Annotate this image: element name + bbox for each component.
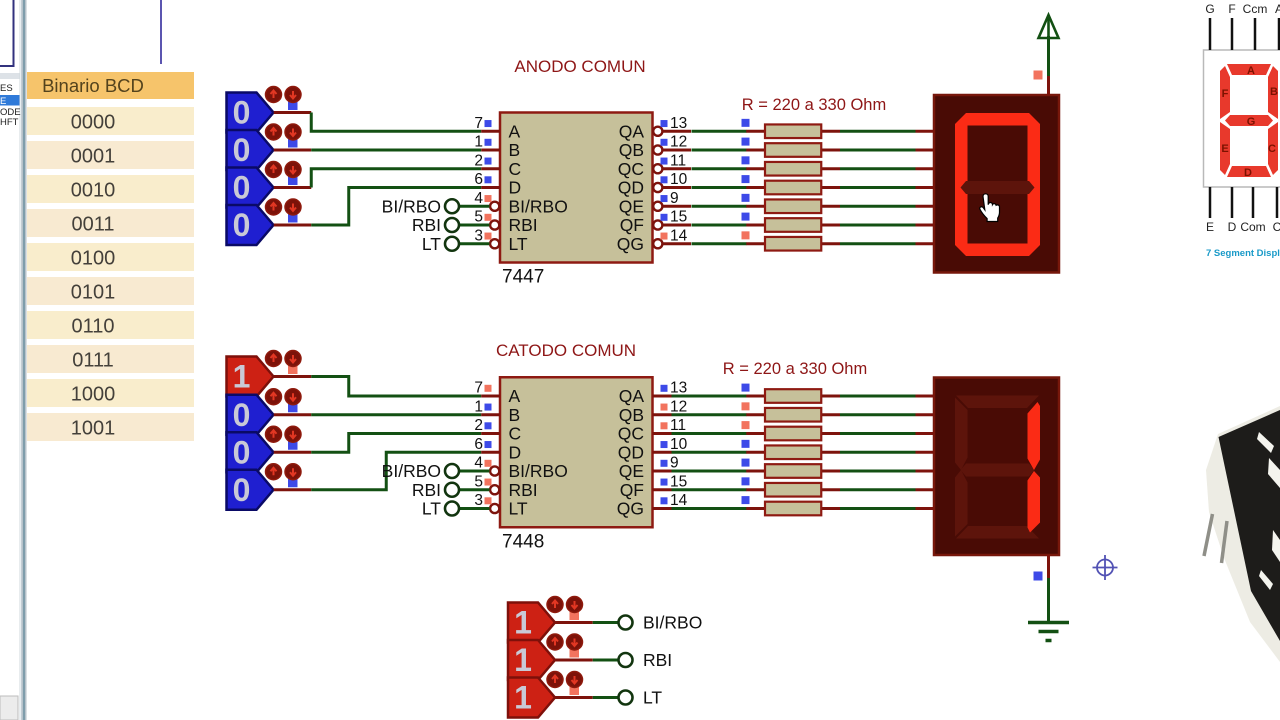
DS2 segment c (lit) [1028,471,1041,533]
svg-text:BI/RBO: BI/RBO [382,461,441,481]
wire U2 QF to resistor R13 [672,488,747,491]
7-segment display DS2 body [934,378,1059,556]
wire R10 to display DS2 [840,432,916,435]
svg-text:1: 1 [474,398,483,415]
logic state input bit 3 circuit2 (value 1) [227,357,274,397]
svg-text:QD: QD [618,178,644,198]
splitter bar vertical [20,0,27,720]
level indicator R8 input [742,384,750,392]
terminal node RBI (U1) [445,218,459,232]
level indicator R10 input [742,421,750,429]
svg-text:RBI: RBI [643,650,672,670]
svg-text:11: 11 [670,152,686,169]
svg-text:0010: 0010 [71,180,116,202]
wire LS8 to pin D (7448) [274,452,482,490]
terminal node LT (U2) [445,502,459,516]
U1 left pin 5 (RBI) [474,209,537,236]
wire R13 to display DS2 [840,488,916,491]
svg-text:QC: QC [618,424,644,444]
pinout mini display segment D [1227,166,1271,179]
display DS1 pin stub f [916,224,935,227]
U2 left pin 7 (A) [474,380,520,407]
svg-text:5: 5 [474,209,483,226]
svg-text:0101: 0101 [71,282,116,304]
svg-text:0: 0 [233,472,251,508]
svg-text:E: E [0,96,6,107]
U1 right pin 15 (QF) [620,209,691,236]
wire terminal LT to U2 [459,507,490,510]
svg-text:LT: LT [509,234,528,254]
svg-text:QB: QB [619,405,644,425]
svg-text:E: E [1206,220,1214,234]
svg-text:A: A [509,121,521,141]
svg-text:0100: 0100 [71,248,116,270]
svg-text:QD: QD [618,442,644,462]
pinout top pin G [1205,2,1214,50]
svg-text:Ccm: Ccm [1243,2,1268,16]
svg-text:QE: QE [619,196,644,216]
wire U1 QB to resistor R2 [692,149,747,152]
toggle buttons of input bit 0 circuit1 [266,199,302,223]
level indicator R4 input [742,175,750,183]
svg-text:ANODO COMUN: ANODO COMUN [514,57,645,76]
U1 left pin 7 (A) [474,115,520,142]
IC U1 (7447) body [500,113,653,263]
svg-text:1: 1 [514,680,532,716]
level indicator cathode net [1034,572,1043,581]
terminal node RBI (U2) [445,483,459,497]
IC U2 (7448) body [500,377,653,527]
U1 right pin 14 (QG) [617,227,691,254]
svg-text:6: 6 [474,436,483,453]
display DS1 pin stub e [916,205,935,208]
resistor R9 [746,408,840,422]
DS1 segment g (off) [961,181,1035,194]
resistor R14 [746,502,840,516]
svg-text:D: D [509,442,522,462]
level indicator R13 input [742,477,750,485]
display DS2 pin stub f [916,488,935,491]
svg-text:2: 2 [474,152,483,169]
wire U1 QA to resistor R1 [692,130,747,133]
photo: white segments on face [1257,432,1280,590]
photo: display component body (plastic) [1206,406,1280,662]
terminal node LT (U1) [445,237,459,251]
svg-text:QG: QG [617,499,644,519]
wire U2 QD to resistor R11 [672,451,747,454]
logic state input bit 2 circuit2 (value 0) [227,395,274,435]
svg-text:D: D [509,178,522,198]
svg-text:LT: LT [509,499,528,519]
resistor R12 [746,464,840,478]
svg-text:RBI: RBI [509,215,538,235]
toggle buttons of input bit 1 circuit2 [266,426,302,450]
resistor R13 [746,483,840,497]
display DS1 pin stub c [916,167,935,170]
svg-text:1: 1 [514,605,532,641]
svg-text:12: 12 [670,398,687,415]
svg-text:D: D [1244,167,1252,179]
pinout diagram white panel [1204,50,1280,187]
level indicator R2 input [742,138,750,146]
level indicator R1 input [742,119,750,127]
resistor R2 [746,143,840,157]
pinout bottom pin D [1228,187,1237,234]
wire control LS to terminal RBI [555,659,618,662]
svg-text:3: 3 [474,227,483,244]
U2 right pin 12 (QB) [619,398,688,425]
svg-text:0: 0 [233,397,251,433]
table row 1001 [27,413,194,441]
resistor R4 [746,181,840,195]
U1 right pin 12 (QB) [619,134,691,161]
gray box bottom-left corner [0,696,18,720]
toggle buttons of input bit 3 circuit2 [266,351,302,375]
DS2 segment f (off) [955,398,968,471]
svg-text:12: 12 [670,134,687,151]
U2 left pin 1 (B) [474,398,520,425]
terminal node LT (bottom) [619,691,633,705]
wire R14 to display DS2 [840,507,916,510]
wire U2 QE to resistor R12 [672,470,747,473]
window frame edge second vertical [160,0,162,64]
svg-text:G: G [1205,2,1214,16]
svg-text:0: 0 [233,132,251,168]
mouse cursor (hand) [980,194,1000,222]
pinout mini display segment F [1220,66,1230,119]
U2 right pin 15 (QF) [620,473,688,500]
wire U1 QE to resistor R5 [692,205,747,208]
U1 right pin 10 (QD) [618,171,691,198]
logic state input bit 0 circuit2 (value 0) [227,470,274,510]
svg-text:QA: QA [619,121,645,141]
origin crosshair marker [1093,555,1118,580]
wire control LS to terminal BI/RBO [555,621,618,624]
wire terminal RBI to U1 [459,224,490,227]
U1 left pin 2 (C) [474,152,521,179]
display DS1 pin stub g [916,242,935,245]
svg-text:10: 10 [670,171,688,188]
logic state control BI/RBO (value 1) [508,603,555,643]
svg-text:7: 7 [474,380,483,397]
terminal node BI/RBO (U2) [445,464,459,478]
U2 left pin 6 (D) [474,436,521,463]
svg-text:LT: LT [643,688,662,708]
resistor R3 [746,162,840,176]
pinout mini display segment A [1227,64,1271,77]
U2 left pin 3 (LT) [474,492,528,519]
wire U2 QC to resistor R10 [672,432,747,435]
svg-text:0: 0 [233,207,251,243]
logic state control LT (value 1) [508,678,555,718]
wire U2 QA to resistor R8 [672,395,747,398]
wire U1 QG to resistor R7 [692,242,747,245]
svg-text:BI/RBO: BI/RBO [382,196,441,216]
U2 left pin 5 (RBI) [474,473,537,500]
wire LS4 to pin D (7447) [274,188,482,226]
wire R8 to display DS2 [840,395,916,398]
DS2 segment b (lit) [1028,402,1041,470]
U1 right pin 13 (QA) [619,115,691,142]
svg-text:C: C [1268,143,1276,155]
wire terminal BI/RBO to U2 [459,470,490,473]
svg-text:A: A [1247,65,1255,77]
wire R9 to display DS2 [840,413,916,416]
ground symbol [1028,623,1069,641]
logic state input bit 3 circuit1 (value 0) [227,93,274,133]
svg-text:1: 1 [233,359,251,395]
svg-text:F: F [1222,88,1229,100]
svg-text:QB: QB [619,140,644,160]
svg-text:9: 9 [670,455,679,472]
table Binario BCD header [27,72,194,99]
svg-text:13: 13 [670,115,687,132]
level indicator R6 input [742,213,750,221]
svg-text:0111: 0111 [72,350,114,372]
svg-text:0000: 0000 [71,112,116,134]
resistor R5 [746,199,840,213]
svg-text:6: 6 [474,171,483,188]
terminal node BI/RBO (bottom) [619,616,633,630]
U1 right pin 11 (QC) [618,152,691,179]
svg-text:Com: Com [1240,220,1265,234]
wire terminal LT to U1 [459,242,490,245]
svg-text:A: A [509,386,521,406]
svg-text:0110: 0110 [71,316,114,338]
svg-text:0001: 0001 [71,146,116,168]
svg-text:C: C [1273,220,1280,234]
level indicator R14 input [742,496,750,504]
svg-text:0: 0 [233,95,251,131]
svg-text:0: 0 [233,170,251,206]
svg-text:1: 1 [514,642,532,678]
svg-text:1001: 1001 [71,418,116,440]
U2 left pin 4 (BI/RBO) [474,455,567,482]
table row 0010 [27,175,194,203]
small list box top-left [0,73,21,130]
svg-text:QG: QG [617,234,644,254]
terminal node BI/RBO (U1) [445,199,459,213]
wire R4 to display DS1 [840,186,916,189]
svg-text:3: 3 [474,492,483,509]
svg-text:QF: QF [620,480,644,500]
DS1 lit segments a,b,c,d,e,f (digit 0) [955,113,1040,256]
wire LS6 to pin B (7448) [274,413,482,416]
svg-text:RBI: RBI [412,215,441,235]
svg-text:B: B [1270,86,1278,98]
DS2 segment a (off) [956,396,1039,409]
display DS1 pin stub d [916,186,935,189]
svg-text:HFT: HFT [0,117,19,128]
resistor R7 [746,237,840,251]
photo: display black face [1219,410,1280,641]
table row 0111 [27,345,194,373]
pinout mini display segment E [1220,122,1230,175]
7-segment display DS1 body [934,95,1059,273]
U2 left pin 2 (C) [474,417,521,444]
table row 0000 [27,107,194,135]
toggle buttons of input bit 3 circuit1 [266,87,302,111]
table row 0110 [27,311,194,339]
photo: component pin 2 [1222,521,1228,563]
wire R5 to display DS1 [840,205,916,208]
svg-text:5: 5 [474,473,483,490]
svg-text:4: 4 [474,455,483,472]
svg-text:0: 0 [233,434,251,470]
svg-text:LT: LT [422,234,441,254]
DS2 segment d (off) [956,526,1039,539]
svg-text:LT: LT [422,499,441,519]
terminal node RBI (bottom) [619,653,633,667]
pinout mini display segment B [1268,66,1278,119]
pinout top pin A [1275,2,1280,50]
display DS2 pin stub a [916,395,935,398]
resistor R11 [746,445,840,459]
U1 left pin 3 (LT) [474,227,528,254]
svg-text:BI/RBO: BI/RBO [509,196,568,216]
svg-text:15: 15 [670,209,687,226]
cathode pin wire of DS2 [1047,555,1050,623]
wire U1 QF to resistor R6 [692,224,747,227]
pinout top pin F [1228,2,1235,50]
U2 right pin 13 (QA) [619,380,688,407]
logic state input bit 1 circuit1 (value 0) [227,168,274,208]
svg-text:R = 220 a 330 Ohm: R = 220 a 330 Ohm [742,96,886,114]
svg-text:2: 2 [474,417,483,434]
resistor R1 [746,124,840,138]
resistor R6 [746,218,840,232]
svg-text:D: D [1228,220,1237,234]
DS2 segment e (off) [955,470,968,537]
wire LS7 to pin C (7448) [274,434,482,453]
level indicator anode net [1034,71,1043,80]
display DS2 pin stub e [916,470,935,473]
svg-text:B: B [509,405,521,425]
logic state input bit 1 circuit2 (value 0) [227,432,274,472]
logic state input bit 0 circuit1 (value 0) [227,205,274,245]
U1 left pin 6 (D) [474,171,521,198]
table row 0100 [27,243,194,271]
svg-text:RBI: RBI [412,480,441,500]
svg-text:15: 15 [670,473,687,490]
svg-text:4: 4 [474,190,483,207]
resistor R10 [746,427,840,441]
svg-text:0011: 0011 [71,214,114,236]
svg-text:RBI: RBI [509,480,538,500]
display DS2 pin stub g [916,507,935,510]
wire LS3 to pin C (7447) [274,169,482,188]
U2 right pin 10 (QD) [618,436,688,463]
svg-text:R = 220 a 330 Ohm: R = 220 a 330 Ohm [723,360,867,378]
window frame edge top-left [0,0,15,66]
pinout mini display segment C [1268,122,1278,175]
svg-text:QA: QA [619,386,645,406]
svg-text:CATODO COMUN: CATODO COMUN [496,341,636,360]
table row 0001 [27,141,194,169]
pinout bottom pin E [1206,187,1214,234]
svg-text:B: B [509,140,521,160]
wire LS5 to pin A (7448) [274,377,482,397]
U1 left pin 4 (BI/RBO) [474,190,567,217]
wire R7 to display DS1 [840,242,916,245]
photo: component pin 1 [1204,514,1213,556]
svg-text:A: A [1275,2,1280,16]
svg-text:11: 11 [670,417,686,434]
U1 right pin 9 (QE) [619,190,691,217]
svg-text:1000: 1000 [71,384,116,406]
svg-text:QE: QE [619,461,644,481]
wire R1 to display DS1 [840,130,916,133]
svg-text:9: 9 [670,190,679,207]
logic state control RBI (value 1) [508,640,555,680]
wire U2 QB to resistor R9 [672,413,747,416]
table row 0011 [27,209,194,237]
level indicator R12 input [742,459,750,467]
level indicator R5 input [742,194,750,202]
wire R12 to display DS2 [840,470,916,473]
toggle buttons of input bit 2 circuit2 [266,389,302,413]
svg-text:F: F [1228,2,1235,16]
svg-text:14: 14 [670,492,688,509]
pinout mini display segment G [1225,115,1273,128]
U2 right pin 11 (QC) [618,417,686,444]
level indicator R9 input [742,402,750,410]
U2 right pin 9 (QE) [619,455,679,482]
resistor R8 [746,389,840,403]
svg-text:ES: ES [0,83,13,94]
svg-text:7: 7 [474,115,483,132]
svg-text:1: 1 [474,134,483,151]
svg-text:QF: QF [620,215,644,235]
svg-text:13: 13 [670,380,687,397]
svg-text:C: C [509,424,522,444]
svg-text:Binario BCD: Binario BCD [42,75,144,96]
svg-text:7447: 7447 [502,267,544,288]
table row 0101 [27,277,194,305]
pinout bottom pin Com [1240,187,1265,234]
wire control LS to terminal LT [555,696,618,699]
display DS2 pin stub d [916,451,935,454]
display DS2 pin stub b [916,413,935,416]
display DS1 pin stub b [916,149,935,152]
svg-text:C: C [509,159,522,179]
power arrow symbol (VCC) [1039,15,1059,38]
power pin wire of DS1 (anode) [1047,36,1050,95]
wire terminal RBI to U2 [459,488,490,491]
wire R3 to display DS1 [840,167,916,170]
wire U1 QD to resistor R4 [692,186,747,189]
wire R2 to display DS1 [840,149,916,152]
wire U2 QG to resistor R14 [672,507,747,510]
wire R11 to display DS2 [840,451,916,454]
display DS2 pin stub c [916,432,935,435]
U2 right pin 14 (QG) [617,492,688,519]
wire terminal BI/RBO to U1 [459,205,490,208]
svg-text:E: E [1221,143,1228,155]
svg-text:QC: QC [618,159,644,179]
DS2 segment g (off) [961,464,1035,477]
level indicator R7 input [742,231,750,239]
svg-text:BI/RBO: BI/RBO [509,461,568,481]
toggle buttons of input bit 1 circuit1 [266,162,302,186]
svg-text:14: 14 [670,227,688,244]
toggle buttons of control LT [547,672,583,696]
U1 left pin 1 (B) [474,134,520,161]
svg-text:7448: 7448 [502,531,544,552]
pinout top pin Ccm [1243,2,1268,50]
wire R6 to display DS1 [840,224,916,227]
logic state input bit 2 circuit1 (value 0) [227,130,274,170]
